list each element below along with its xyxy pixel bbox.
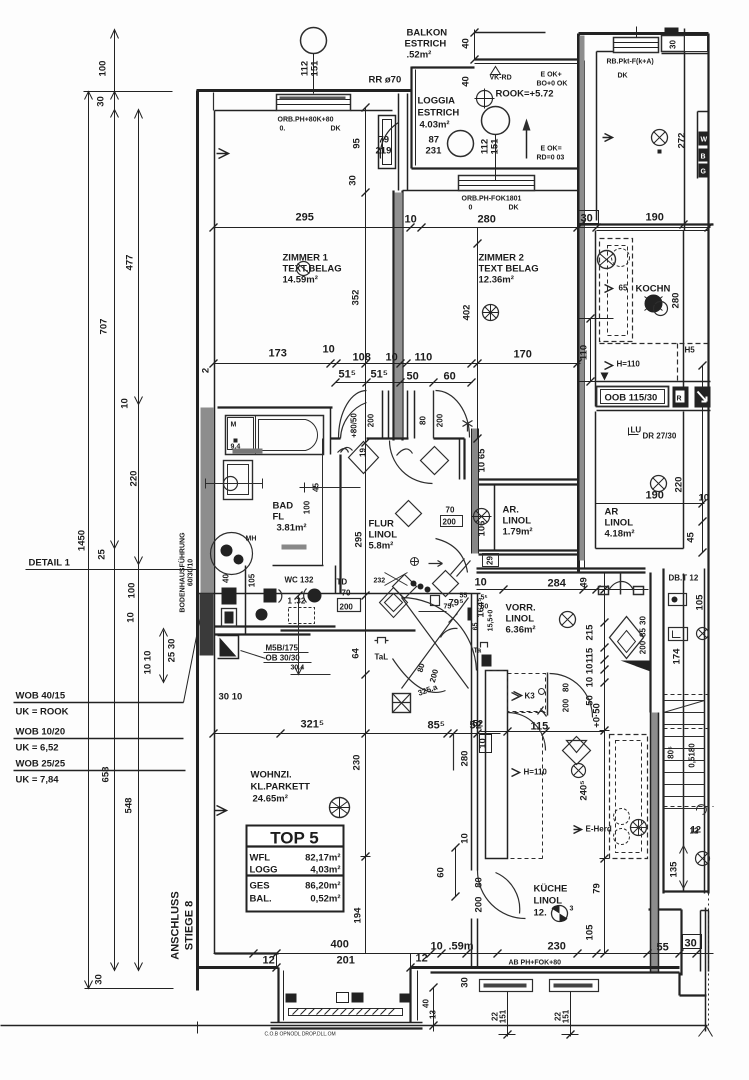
- svg-text:40: 40: [422, 999, 431, 1008]
- svg-text:RB.Pkt-F(k+A): RB.Pkt-F(k+A): [607, 59, 654, 66]
- zimmer2 door arc: [390, 441, 433, 484]
- tub: [226, 416, 324, 455]
- svg-text:79: 79: [592, 883, 603, 894]
- vertical dim line B x=114: [114, 30, 116, 971]
- M box: [228, 418, 254, 450]
- svg-text:80: 80: [562, 683, 571, 692]
- svg-text:79: 79: [379, 135, 390, 146]
- svg-text:52: 52: [473, 719, 484, 730]
- svg-text:75⁵: 75⁵: [444, 604, 455, 611]
- svg-text:95: 95: [352, 138, 363, 149]
- svg-text:2: 2: [201, 368, 212, 373]
- vorr door arc top right flur: [436, 539, 468, 573]
- svg-text:170: 170: [514, 349, 532, 361]
- svg-text:E OK=: E OK=: [541, 146, 562, 153]
- 29 box right: [483, 554, 499, 567]
- svg-text:30: 30: [96, 96, 107, 107]
- svg-text:12.: 12.: [534, 908, 547, 919]
- svg-text:DR 27/30: DR 27/30: [643, 432, 677, 441]
- svg-text:19: 19: [359, 448, 368, 457]
- svg-text:RD=0 03: RD=0 03: [537, 155, 565, 162]
- svg-text:82,17m²: 82,17m²: [305, 853, 340, 864]
- svg-text:R: R: [677, 396, 682, 403]
- ANSCHLUSS STIEGE 8: [170, 891, 196, 959]
- svg-text:220: 220: [129, 471, 140, 487]
- svg-text:BO+0 OK: BO+0 OK: [537, 81, 568, 88]
- top circle (chimney): [301, 28, 327, 54]
- svg-text:ROOK=+5.72: ROOK=+5.72: [496, 89, 554, 100]
- svg-text:MH: MH: [246, 536, 257, 543]
- svg-text:DK: DK: [618, 73, 628, 80]
- svg-text:4.18m²: 4.18m²: [605, 529, 635, 540]
- arrows: [85, 30, 143, 989]
- svg-text:10: 10: [475, 577, 487, 589]
- svg-text:215: 215: [585, 624, 596, 641]
- kueche door arc from wohnz: [478, 871, 526, 919]
- left door arc (bad): [339, 391, 367, 439]
- svg-text:12.36m²: 12.36m²: [479, 275, 514, 286]
- bad door small arc: [341, 447, 353, 452]
- stairwell left wall: [662, 569, 664, 894]
- door stub walls at flur top: [383, 391, 415, 439]
- svg-text:400: 400: [331, 939, 349, 951]
- svg-text:10: 10: [431, 941, 443, 953]
- svg-text:295: 295: [354, 531, 365, 548]
- svg-text:M: M: [231, 422, 237, 429]
- 110 kochn: [578, 319, 621, 382]
- svg-text:60: 60: [436, 867, 447, 878]
- svg-text:30: 30: [94, 974, 105, 985]
- svg-text:0: 0: [469, 205, 473, 212]
- svg-text:51⁵: 51⁵: [339, 369, 356, 381]
- svg-text:30: 30: [348, 175, 359, 186]
- top right room light: [652, 130, 668, 154]
- top row y=227: [214, 227, 711, 229]
- svg-text:230: 230: [352, 755, 363, 771]
- zimmer2 bottom wall right part: [459, 439, 461, 480]
- svg-text:10: 10: [120, 398, 131, 409]
- zimmer2 ceiling light: [483, 305, 499, 321]
- 60 dim near kueche door: [455, 848, 457, 897]
- svg-text:219: 219: [376, 146, 392, 157]
- svg-text:VK-RD: VK-RD: [490, 75, 512, 82]
- svg-text:25: 25: [97, 549, 108, 560]
- zimmer1 strike circle: [297, 262, 311, 276]
- svg-text:6.36m²: 6.36m²: [506, 625, 536, 636]
- svg-text:WOB 25/25: WOB 25/25: [16, 759, 66, 770]
- svg-text:W: W: [701, 137, 708, 144]
- svg-text:AR.: AR.: [503, 505, 519, 516]
- svg-text:ESTRICH: ESTRICH: [405, 39, 447, 50]
- window side walls top (x 393..407 from 93 to 190): [399, 94, 408, 191]
- loggia bottom sill zone: [412, 167, 578, 169]
- svg-text:TaL: TaL: [375, 653, 389, 662]
- wc room: [246, 566, 324, 636]
- grey wall band bath zone: [201, 408, 214, 656]
- zimmer1 window top: [277, 95, 351, 111]
- svg-text:280: 280: [671, 293, 682, 309]
- svg-text:LOGGIA: LOGGIA: [418, 96, 456, 107]
- svg-text:12: 12: [690, 827, 699, 836]
- svg-text:40: 40: [461, 76, 472, 87]
- svg-text:5⁵: 5⁵: [481, 595, 488, 602]
- kueche/wohnz bottom wall: [198, 966, 279, 969]
- vorr-wohnz double door X: [402, 598, 469, 689]
- svg-text:FL: FL: [273, 512, 285, 523]
- wohnz right wall double: [472, 594, 478, 871]
- svg-text:WFL: WFL: [250, 853, 271, 864]
- svg-text:201: 201: [337, 955, 355, 967]
- svg-text:C.O.B OPNODL DROP.DLL.OM: C.O.B OPNODL DROP.DLL.OM: [265, 1032, 336, 1038]
- svg-text:LU: LU: [631, 426, 642, 435]
- svg-text:1.79m²: 1.79m²: [503, 527, 533, 538]
- svg-text:110: 110: [415, 352, 433, 364]
- kochn left wall: [595, 231, 597, 407]
- svg-text:272: 272: [677, 133, 688, 149]
- svg-text:200: 200: [474, 897, 485, 913]
- svg-text:55: 55: [460, 593, 468, 600]
- svg-text:BAL.: BAL.: [250, 894, 272, 905]
- svg-text:TEXT BELAG: TEXT BELAG: [479, 264, 539, 275]
- svg-text:LINOL: LINOL: [605, 518, 634, 529]
- svg-text:0.: 0.: [280, 126, 286, 133]
- svg-text:87: 87: [429, 135, 440, 146]
- vertical dim line C x=138: [138, 110, 140, 971]
- svg-text:UK = 6,52: UK = 6,52: [16, 743, 59, 754]
- svg-text:100: 100: [98, 61, 109, 77]
- svg-text:115: 115: [585, 647, 596, 663]
- svg-text:M5B/175: M5B/175: [266, 644, 299, 653]
- grey shelf wc: [282, 545, 307, 550]
- vorr-kueche door dashed: [508, 713, 546, 859]
- duct fan: [472, 509, 492, 525]
- svg-text:55: 55: [657, 942, 669, 954]
- svg-text:LINOL: LINOL: [503, 516, 532, 527]
- svg-text:BODENHAUSFÜHRUNG: BODENHAUSFÜHRUNG: [178, 532, 187, 613]
- svg-text:LINOL: LINOL: [534, 896, 563, 907]
- svg-text:45: 45: [686, 532, 697, 543]
- kochn right wall: [683, 231, 685, 407]
- box with X: [393, 694, 411, 713]
- svg-text:10: 10: [405, 214, 417, 226]
- svg-text:TEXT.BELAG: TEXT.BELAG: [283, 264, 342, 275]
- svg-text:85⁵: 85⁵: [428, 720, 445, 732]
- zimmer1/zimmer2 divider double wall: [394, 191, 403, 441]
- svg-text:200: 200: [436, 413, 445, 427]
- svg-text:AB PH+FOK+80: AB PH+FOK+80: [509, 960, 562, 967]
- svg-text:DK: DK: [331, 126, 341, 133]
- row y=363: [214, 363, 581, 365]
- wc fixtures: [264, 589, 277, 603]
- wc bottom wall: [215, 625, 336, 627]
- zimmer1 wall tick: [217, 149, 229, 159]
- duct rect: [486, 671, 508, 859]
- svg-text:105: 105: [585, 924, 596, 941]
- kueche right wall grey: [651, 713, 659, 973]
- svg-text:70: 70: [342, 589, 351, 598]
- svg-text:STIEGE 8: STIEGE 8: [184, 901, 196, 951]
- entry niche: [218, 636, 239, 659]
- BODENHAUSFUEHRUNG rotated label: [178, 532, 195, 613]
- svg-text:GES: GES: [250, 881, 270, 892]
- svg-text:40: 40: [461, 38, 472, 49]
- right door arc: [436, 391, 470, 438]
- vertical dim x=365: [365, 108, 367, 954]
- 'OOB 115/30' band bottom: [597, 382, 711, 411]
- svg-text:80: 80: [419, 416, 428, 425]
- svg-text:OB 30/30: OB 30/30: [266, 654, 301, 663]
- svg-text:30.4: 30.4: [291, 665, 305, 672]
- vorr top wall is above; entry right wall to stair: [649, 573, 651, 713]
- loggia sill window: [459, 176, 535, 191]
- TaL symbol: [375, 638, 389, 644]
- svg-text:1450: 1450: [77, 530, 88, 551]
- svg-text:10 10: 10 10: [143, 651, 154, 675]
- svg-text:49: 49: [579, 577, 590, 588]
- top wall zimmer1: [197, 89, 411, 92]
- svg-text:230: 230: [548, 941, 566, 953]
- svg-text:ZIMMER 2: ZIMMER 2: [479, 253, 524, 264]
- svg-text:ANSCHLUSS: ANSCHLUSS: [170, 891, 182, 959]
- svg-text:KÜCHE: KÜCHE: [534, 884, 568, 895]
- svg-text:WOB 10/20: WOB 10/20: [16, 727, 66, 738]
- svg-text:5.8m²: 5.8m²: [369, 541, 394, 552]
- svg-text:H=110: H=110: [617, 360, 641, 369]
- kueche light: [572, 764, 586, 778]
- AR 4.18 room: [596, 412, 684, 549]
- svg-text:ORB.PH+80K+80: ORB.PH+80K+80: [278, 117, 334, 124]
- svg-text:190: 190: [646, 212, 664, 224]
- svg-text:100: 100: [303, 500, 312, 514]
- svg-text:220: 220: [674, 477, 685, 493]
- svg-text:ESTRICH: ESTRICH: [418, 108, 460, 119]
- flur bottom wall segments y=438: [331, 437, 465, 439]
- svg-text:10 10: 10 10: [585, 664, 596, 688]
- WOB text blocks: [14, 581, 208, 786]
- E-Herd labels: [574, 826, 582, 834]
- svg-text:30: 30: [639, 616, 648, 625]
- svg-text:AR: AR: [605, 507, 619, 518]
- svg-text:TD: TD: [337, 578, 348, 587]
- svg-text:548: 548: [124, 798, 135, 814]
- svg-text:280: 280: [460, 751, 471, 767]
- svg-text:25 30: 25 30: [167, 639, 178, 663]
- wohnz ceiling: [330, 798, 350, 818]
- svg-text:3: 3: [570, 906, 574, 913]
- left inner wall line: [214, 111, 216, 954]
- svg-text:200: 200: [340, 603, 354, 612]
- svg-text:86,20m²: 86,20m²: [305, 881, 340, 892]
- vorr light: [560, 612, 576, 628]
- svg-text:194: 194: [353, 907, 364, 924]
- svg-text:30: 30: [460, 977, 471, 988]
- right bottom box: [701, 911, 709, 972]
- svg-text:12: 12: [416, 953, 428, 965]
- right edge: [707, 34, 709, 894]
- bottom dim row y=953: [214, 953, 714, 955]
- svg-text:29: 29: [486, 556, 495, 565]
- top right window: [614, 38, 659, 53]
- svg-text:321⁵: 321⁵: [301, 719, 325, 731]
- svg-text:B: B: [701, 154, 706, 161]
- svg-text:51⁵: 51⁵: [371, 369, 388, 381]
- pillar between bath window and loggia: [379, 116, 396, 169]
- washbasin: [224, 461, 253, 500]
- svg-text:173: 173: [269, 348, 287, 360]
- svg-text:Ta: Ta: [474, 648, 482, 655]
- svg-text:15,5+0: 15,5+0: [488, 610, 495, 632]
- svg-text:65: 65: [619, 284, 628, 293]
- svg-text:0,52m²: 0,52m²: [310, 894, 340, 905]
- svg-text:232: 232: [374, 578, 386, 585]
- svg-text:+0·50: +0·50: [592, 703, 603, 728]
- svg-text:280: 280: [478, 214, 496, 226]
- squiggle door hooks: [338, 449, 413, 456]
- svg-text:WOB 40/15: WOB 40/15: [16, 691, 66, 702]
- vertical dim line A x=88: [88, 93, 90, 989]
- vertical dim x=477 zimmer2: [477, 228, 479, 439]
- diamonds: [349, 442, 379, 474]
- svg-text:65: 65: [473, 623, 480, 631]
- svg-text:13: 13: [429, 1010, 438, 1019]
- svg-text:200: 200: [443, 518, 457, 527]
- svg-text:658: 658: [101, 767, 112, 783]
- AR 1.79 room: [479, 480, 579, 485]
- kueche counter dashed: [610, 735, 648, 859]
- svg-text:UK = ROOK: UK = ROOK: [16, 707, 69, 718]
- detail circle: [211, 533, 253, 575]
- top room bottom wall: [579, 223, 714, 225]
- svg-text:200: 200: [367, 413, 376, 427]
- kueche chain x=604: [604, 573, 606, 954]
- bath room walls: [218, 406, 333, 408]
- svg-text:105: 105: [695, 594, 706, 611]
- svg-text:H5: H5: [685, 346, 696, 355]
- svg-text:KOCHN: KOCHN: [636, 284, 671, 295]
- svg-text:284: 284: [548, 578, 567, 590]
- right main wall x=578: [577, 34, 580, 573]
- svg-text:352: 352: [351, 290, 362, 306]
- svg-text:110: 110: [579, 345, 590, 360]
- svg-text:OOB 115/30: OOB 115/30: [605, 393, 658, 404]
- svg-text:RR ø70: RR ø70: [369, 75, 402, 86]
- svg-text:80⁵: 80⁵: [667, 746, 676, 759]
- shelf: [233, 449, 263, 454]
- svg-text:200: 200: [562, 698, 571, 712]
- svg-text:K3: K3: [525, 692, 536, 701]
- svg-text:151: 151: [562, 1009, 571, 1023]
- svg-text:10: 10: [478, 738, 489, 749]
- entry mat triangle: [220, 638, 237, 657]
- svg-text:64: 64: [351, 648, 362, 659]
- svg-text:402: 402: [462, 305, 473, 321]
- DETAIL 1 callout: [26, 558, 198, 570]
- svg-text:30: 30: [669, 40, 678, 49]
- svg-text:10: 10: [460, 833, 471, 844]
- svg-text:151: 151: [310, 60, 321, 77]
- svg-text:H=110: H=110: [524, 768, 548, 777]
- stair lights: [697, 628, 709, 640]
- svg-text:30: 30: [581, 213, 593, 225]
- svg-text:174: 174: [672, 648, 683, 665]
- leader diagonal: [184, 581, 208, 703]
- row y=382: [336, 382, 473, 384]
- main horizontal mid line y=593: [198, 593, 481, 595]
- svg-text:231: 231: [426, 146, 443, 157]
- svg-text:.52m²: .52m²: [407, 50, 432, 61]
- top horizontal tick line: [84, 91, 173, 93]
- svg-text:4.03m²: 4.03m²: [420, 120, 450, 131]
- svg-text:135: 135: [669, 861, 680, 878]
- loggia top: [412, 66, 475, 68]
- svg-text:40: 40: [222, 574, 231, 583]
- svg-text:DB.T 12: DB.T 12: [669, 574, 699, 583]
- svg-text:DETAIL 1: DETAIL 1: [29, 558, 71, 569]
- right side W B G boxes: [698, 112, 709, 179]
- svg-text:105: 105: [248, 573, 257, 587]
- svg-text:UK = 7,84: UK = 7,84: [16, 775, 60, 786]
- svg-text:0,5180: 0,5180: [688, 743, 697, 768]
- mid row y=589 dims: [477, 589, 649, 591]
- svg-text:30 10: 30 10: [219, 692, 243, 703]
- loggia circle + stem: [482, 107, 510, 135]
- balcony dims right: [433, 988, 435, 1032]
- svg-text:ORB.PH-FOK1801: ORB.PH-FOK1801: [462, 196, 522, 203]
- AR room dims: [596, 503, 705, 505]
- svg-text:50: 50: [407, 371, 419, 383]
- small vertical near 85/52: [453, 734, 455, 771]
- svg-text:14.59m²: 14.59m²: [283, 275, 318, 286]
- svg-text:10 65: 10 65: [477, 448, 488, 472]
- svg-text:3.81m²: 3.81m²: [277, 523, 307, 534]
- bottom left 22/151 labels: [499, 992, 579, 1037]
- AR light: [651, 476, 667, 492]
- vorr top wall: [477, 567, 646, 569]
- svg-text:10: 10: [323, 344, 335, 356]
- rook target: [475, 89, 495, 109]
- svg-text:60/30/10: 60/30/10: [188, 559, 195, 586]
- svg-text:+80/50: +80/50: [350, 413, 359, 438]
- svg-text:KL.PARKETT: KL.PARKETT: [251, 782, 311, 793]
- svg-text:477: 477: [125, 255, 136, 271]
- small dim chain 10 10 25 30: [160, 629, 168, 683]
- loggia left wall: [410, 67, 412, 169]
- svg-text:LINOL: LINOL: [506, 614, 535, 625]
- svg-text:60: 60: [444, 371, 456, 383]
- flur left boundary lower: [335, 566, 337, 594]
- svg-text:BAD: BAD: [273, 501, 294, 512]
- svg-text:24.65m²: 24.65m²: [253, 794, 288, 805]
- flur right grey wall band: [472, 429, 479, 554]
- dense flur clutter near y580-620: [380, 588, 408, 618]
- svg-text:295: 295: [296, 212, 314, 224]
- svg-text:10: 10: [126, 612, 137, 623]
- bottom horizontal tick line: [85, 988, 174, 990]
- svg-text:4,03m²: 4,03m²: [310, 865, 340, 876]
- svg-text:G: G: [701, 169, 707, 176]
- Tel marks right of wohnz wall: [481, 643, 488, 648]
- svg-text:10: 10: [386, 352, 398, 364]
- svg-text:240⁵: 240⁵: [579, 780, 590, 800]
- svg-text:1 .32: 1 .32: [288, 597, 306, 606]
- svg-text:50: 50: [481, 604, 489, 611]
- svg-text:151: 151: [499, 1009, 508, 1023]
- svg-text:70: 70: [446, 506, 455, 515]
- left outer wall: [196, 91, 199, 991]
- kueche pie: [552, 905, 574, 921]
- wohnz top wall: flur bottom: [281, 629, 416, 631]
- kochn symbols: [598, 251, 616, 269]
